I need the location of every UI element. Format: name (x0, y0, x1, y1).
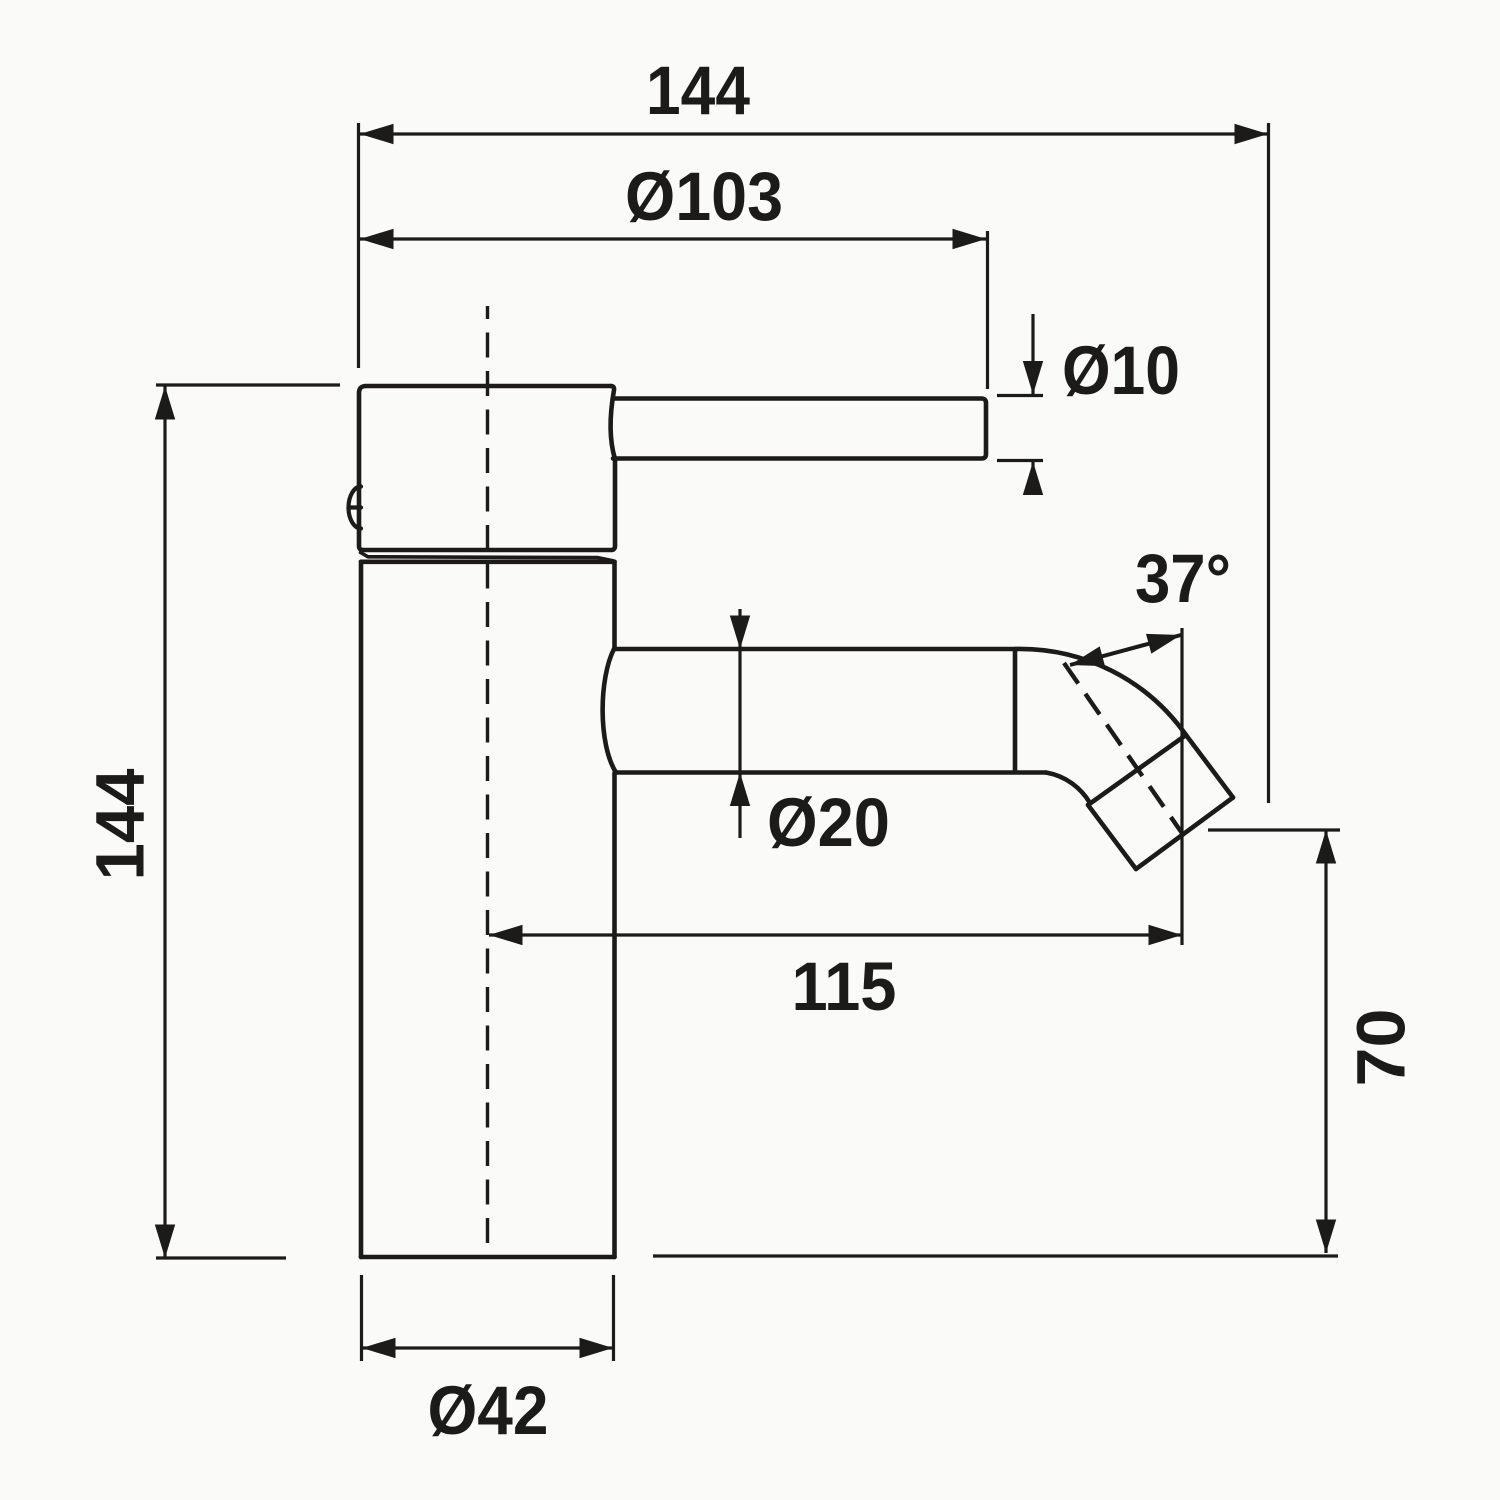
screw head on cap left (349, 487, 362, 529)
dim 42 ext left (360, 1275, 363, 1361)
spout top edge (614, 647, 1015, 652)
spout joint line (1013, 650, 1018, 771)
dim 42 ext right (612, 1275, 615, 1361)
dashed centerline of body (486, 306, 489, 1257)
angle 37 arrow (1070, 635, 1181, 665)
svg-text:Ø10: Ø10 (1062, 332, 1180, 409)
svg-text:115: 115 (792, 948, 897, 1025)
svg-text:Ø103: Ø103 (625, 158, 783, 235)
aerator line (1088, 735, 1186, 805)
outlet face (1136, 798, 1233, 870)
svg-text:Ø42: Ø42 (428, 1372, 549, 1449)
ext line 115 right / angle vertical (1180, 628, 1183, 945)
dim 20 lower arrow (738, 773, 741, 839)
body right edge lower (612, 773, 617, 1257)
spout bend top curve (1015, 649, 1186, 735)
dim 42 line (362, 1346, 613, 1349)
ring joint upper line (361, 553, 614, 561)
dim 20 upper arrow (738, 609, 741, 649)
dim 144 top line (360, 132, 1268, 135)
ext line 144 left top (156, 383, 340, 386)
svg-text:144: 144 (646, 52, 750, 129)
dim 20 connector (738, 649, 741, 773)
svg-text:Ø20: Ø20 (767, 784, 890, 861)
faucet cap (handle base) (359, 386, 615, 550)
handle rod (613, 399, 986, 459)
svg-text:144: 144 (82, 769, 159, 881)
dim 10 tick top (997, 394, 1043, 397)
ext line right of 144 (1267, 123, 1270, 803)
rod end arc at cap top-right (611, 386, 615, 459)
dim 70 tick top (1208, 828, 1340, 831)
spout bottom edge (616, 770, 1046, 775)
dim 10 tick bottom (997, 459, 1043, 462)
dim 10 upper arrow (1031, 314, 1034, 395)
dim 70 line (1324, 830, 1327, 1253)
spout collar arc (603, 649, 616, 773)
screw slot (349, 505, 362, 509)
ext line left of 144/103 (357, 123, 360, 368)
dim 10 lower arrow (1031, 462, 1034, 494)
svg-text:37°: 37° (1135, 540, 1231, 617)
body left edge (359, 562, 364, 1257)
spout bend bottom curve (1046, 773, 1090, 804)
base line (653, 1254, 1338, 1257)
body bottom edge (361, 1255, 615, 1260)
dim 144 left line (163, 386, 166, 1258)
ext line 144 left bottom (156, 1256, 286, 1259)
spout right side (1186, 735, 1233, 798)
ext line right of 103 (986, 231, 989, 389)
body top edge (361, 559, 615, 564)
dashed spout axis (1064, 663, 1184, 836)
spout lower-left side (1088, 805, 1136, 869)
body right edge upper (612, 562, 617, 648)
dim 115 line (489, 933, 1182, 936)
svg-text:70: 70 (1343, 1009, 1420, 1087)
dim 103 line (360, 237, 986, 240)
